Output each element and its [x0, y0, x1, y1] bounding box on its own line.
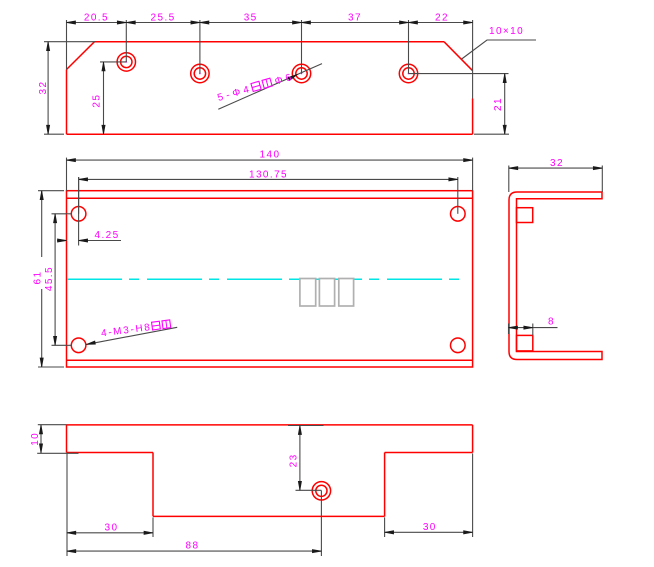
top view top-left chamfer: [67, 42, 95, 70]
svg-text:8: 8: [548, 317, 555, 328]
dim 88: [67, 491, 322, 557]
hole H2 countersink: [191, 64, 209, 82]
leader 10x10: [461, 26, 536, 60]
svg-text:21: 21: [493, 97, 504, 111]
dim 10 bottom view: [30, 425, 78, 454]
svg-text:140: 140: [260, 150, 281, 161]
bottom view right shelf: [385, 452, 473, 454]
dim 61: [33, 191, 65, 367]
bottom view right edge: [472, 425, 474, 453]
svg-text:25.5: 25.5: [151, 13, 176, 24]
stud section bottom: [517, 335, 533, 351]
svg-text:32: 32: [38, 81, 49, 95]
middle view top bend line: [67, 197, 473, 199]
dim 23: [288, 426, 324, 491]
dim 130.75: [79, 170, 458, 214]
svg-text:30: 30: [105, 522, 119, 533]
stud hole top-right: [451, 207, 466, 222]
hole H1 countersink: [117, 53, 135, 71]
tofu box 2: [319, 279, 334, 307]
bottom view tab bottom: [153, 515, 385, 517]
svg-text:22: 22: [435, 13, 449, 24]
svg-text:25: 25: [91, 94, 102, 108]
bottom view tab right side: [384, 453, 386, 517]
bottom view top edge: [67, 424, 473, 426]
middle view outer rectangle: [67, 191, 473, 367]
stud hole bottom-left: [71, 338, 86, 353]
ext line x66.5 top: [66, 20, 68, 69]
dim 32 side view: [509, 158, 603, 192]
svg-text:10×10: 10×10: [489, 26, 524, 37]
svg-text:130.75: 130.75: [249, 170, 288, 181]
top view top-right chamfer: [444, 42, 473, 71]
ext line x472.6 top: [472, 20, 474, 99]
top view right edge: [472, 99, 474, 135]
bottom view left edge: [66, 425, 68, 453]
hole H3 countersink: [292, 64, 310, 82]
svg-text:20.5: 20.5: [84, 13, 109, 24]
svg-text:37: 37: [348, 13, 362, 24]
side view channel outline: [509, 192, 602, 360]
ext line hole3: [301, 20, 303, 74]
dim 30 left: [67, 454, 153, 557]
bottom hole countersink: [312, 482, 330, 500]
arrows top dim chain: [67, 21, 473, 24]
top view bottom edge: [67, 133, 473, 135]
stud hole top-left: [71, 207, 86, 222]
top view left edge: [66, 70, 68, 135]
leader 4-M3-H8 studs: [86, 319, 177, 344]
stud hole bottom-right: [451, 338, 466, 353]
svg-text:45.5: 45.5: [44, 266, 55, 291]
ext line hole4: [408, 20, 410, 74]
svg-text:61: 61: [33, 271, 44, 285]
dim 140: [67, 150, 473, 191]
cyan center line: [67, 278, 467, 280]
stud section top: [517, 208, 533, 223]
bottom view tab left side: [152, 453, 154, 517]
ext line hole2: [199, 20, 201, 74]
dim 30 right: [385, 454, 473, 538]
svg-text:23: 23: [289, 453, 300, 467]
dim 21: [409, 74, 510, 135]
svg-text:35: 35: [244, 13, 258, 24]
dim 32 left of top view: [38, 42, 95, 135]
tofu box 3: [339, 279, 354, 307]
top view top edge: [95, 41, 445, 43]
dim 25: [91, 62, 126, 134]
bottom view left shelf: [67, 452, 154, 454]
dim 45.5: [44, 214, 72, 345]
svg-text:4.25: 4.25: [95, 230, 120, 241]
ext line hole1: [125, 20, 127, 62]
top dim chain line: [67, 22, 473, 24]
tofu box 1: [300, 279, 316, 307]
svg-text:88: 88: [186, 541, 200, 552]
svg-text:32: 32: [550, 158, 564, 169]
svg-text:30: 30: [423, 522, 437, 533]
leader 5-phi4 countersink phi6: [216, 64, 322, 110]
svg-text:10: 10: [30, 432, 41, 446]
hole H4 countersink: [399, 64, 417, 82]
dim 8 side view: [509, 317, 558, 336]
middle view bottom bend line: [67, 359, 473, 361]
dim 4.25: [57, 177, 121, 246]
